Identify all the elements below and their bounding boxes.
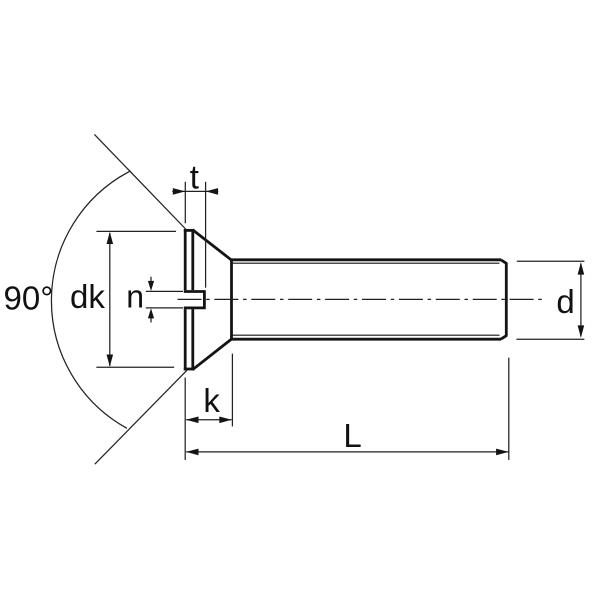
dk extension line bottom	[96, 366, 174, 368]
dk arrow down	[107, 355, 114, 367]
n arrow upper	[150, 277, 152, 282]
d extension line bottom	[516, 338, 584, 340]
slot notch	[184, 292, 205, 308]
head face right line	[191, 229, 194, 370]
k arrow left	[186, 417, 199, 424]
k arrow right	[219, 417, 232, 424]
head bottom cap	[184, 368, 194, 371]
head top cap	[184, 229, 194, 232]
svg-text:k: k	[203, 382, 220, 419]
n extension line top	[146, 290, 183, 292]
n extension line bottom	[146, 307, 183, 309]
shank outline with chamfered end	[230, 258, 501, 261]
thread line bottom	[232, 334, 500, 336]
head shank junction line	[230, 259, 233, 340]
t extension line right	[205, 182, 207, 288]
L arrow right	[496, 449, 509, 456]
dk dimension line	[109, 233, 111, 366]
centerline dash-dot axis	[178, 298, 543, 300]
svg-text:L: L	[343, 417, 361, 454]
dk arrow up	[107, 232, 114, 244]
cone bottom edge	[192, 339, 231, 370]
t arrow right	[206, 188, 219, 195]
dk extension line top	[96, 230, 176, 232]
90 degree arc	[51, 171, 130, 428]
k L shared extension line left	[184, 378, 186, 460]
head face left line	[184, 229, 187, 370]
n arrow lower	[150, 317, 152, 322]
L arrow left	[186, 449, 199, 456]
d arrow down	[578, 325, 585, 337]
thread line top	[232, 262, 500, 264]
k extension line right	[231, 354, 233, 427]
svg-text:d: d	[556, 283, 574, 320]
svg-text:t: t	[190, 159, 199, 196]
d dimension line	[580, 264, 582, 337]
L extension line right	[508, 358, 510, 460]
svg-text:90°: 90°	[4, 280, 54, 317]
svg-text:n: n	[126, 279, 144, 315]
construction line upper cone extension	[94, 134, 186, 230]
t arrow left	[173, 188, 186, 195]
d extension line top	[517, 260, 585, 262]
construction line lower cone extension	[95, 370, 188, 464]
t dimension line	[172, 190, 218, 192]
t extension line left	[184, 182, 186, 224]
k dimension line	[186, 419, 231, 421]
d arrow up	[578, 262, 585, 274]
cone top edge	[192, 230, 231, 261]
L dimension line	[186, 451, 508, 453]
svg-text:dk: dk	[70, 278, 105, 315]
